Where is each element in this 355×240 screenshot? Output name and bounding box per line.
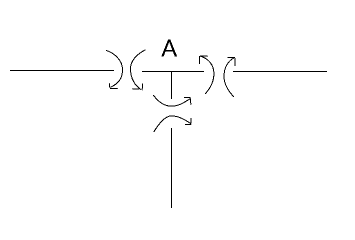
arrow 1 curve (left pair, outer, head down-left) <box>107 51 123 88</box>
arrow 5 curve (middle upper, head up-right) <box>154 95 191 106</box>
arrow 4 curve (right pair, outer, head up-right) <box>224 58 234 97</box>
arrow 6 head <box>185 119 191 125</box>
arrow 3 curve (right pair, inner, head up-left) <box>201 56 214 93</box>
arrow 2 head <box>133 84 143 90</box>
wire right horizontal <box>233 71 327 73</box>
node A label <box>161 40 177 57</box>
wire node A vertical stub <box>171 72 173 100</box>
arrow 1 head <box>109 84 117 89</box>
wire left horizontal <box>10 70 114 72</box>
arrow 6 curve (middle lower, head down-right) <box>154 116 191 132</box>
wire middle horizontal at node A <box>142 71 204 73</box>
arrow 3 head <box>200 56 208 64</box>
arrow 2 curve (left pair, inner, head down-right) <box>131 50 146 89</box>
wire bottom vertical <box>171 128 173 208</box>
arrow 4 head <box>228 57 235 65</box>
arrow 5 head <box>184 98 191 105</box>
